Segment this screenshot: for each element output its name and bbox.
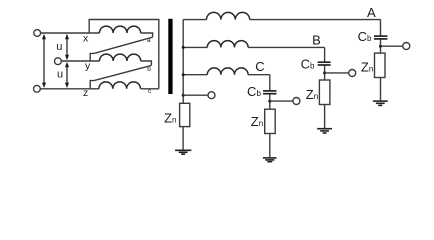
branch B wire (left of inductor)	[183, 46, 207, 48]
wire C drop to capacitor	[269, 75, 271, 91]
svg-text:y: y	[85, 60, 91, 72]
svg-text:u: u	[56, 41, 62, 53]
impedance box Zn (branch C)	[265, 109, 276, 133]
branch C wire (right of inductor)	[248, 74, 270, 76]
inductor branch C (3 humps)	[207, 68, 248, 75]
wire phase2 to node y	[62, 60, 100, 62]
wire box to ground (branch B)	[324, 105, 326, 129]
wire winding z-c to right edge	[141, 88, 159, 90]
wire capacitor to box (branch A)	[380, 39, 382, 53]
wire junction C to terminal	[270, 100, 293, 102]
delta frame: riser at node x, top edge, right edge	[89, 20, 159, 89]
wire capacitor to box (branch C)	[269, 94, 271, 109]
wire winding y-b to corner b	[141, 61, 152, 65]
terminal circle phase 3 (left bottom)	[34, 85, 41, 92]
branch B wire (right of inductor)	[248, 46, 325, 48]
wire junction B to terminal	[325, 72, 349, 74]
svg-text:x: x	[83, 33, 89, 45]
node junction C	[268, 100, 271, 103]
winding z-c (inductor, 3 humps)	[99, 82, 141, 89]
branch A wire (right of inductor)	[250, 19, 381, 21]
svg-text:A: A	[367, 5, 376, 20]
node junction bus-B	[182, 46, 185, 49]
capacitor Cb (branch B)	[318, 62, 331, 65]
svg-text:u: u	[57, 69, 63, 81]
svg-text:z: z	[83, 87, 88, 99]
branch C wire (left of inductor)	[183, 74, 207, 76]
impedance box Zn (neutral)	[180, 103, 190, 126]
capacitor Cb (branch A)	[374, 36, 387, 39]
impedance box Zn (branch B)	[319, 80, 330, 105]
branch A wire (left of inductor)	[183, 19, 206, 21]
node junction B	[323, 71, 326, 74]
wire box to ground (neutral)	[182, 127, 184, 150]
svg-text:B: B	[312, 33, 321, 48]
wire bus junction to terminal	[183, 94, 208, 96]
terminal circle branch C	[293, 98, 300, 105]
svg-text:Zn: Zn	[164, 111, 176, 126]
winding y-b (inductor, 3 humps)	[99, 54, 140, 61]
node junction bus-C	[182, 73, 185, 76]
terminal circle phase 2 (left middle)	[55, 58, 62, 65]
svg-text:Zn: Zn	[306, 87, 318, 102]
svg-text:Cb: Cb	[358, 29, 372, 44]
impedance box Zn (branch A)	[375, 53, 386, 77]
inductor branch B (3 humps)	[207, 41, 248, 48]
terminal circle branch A	[403, 43, 410, 50]
wire phase3 to node z	[41, 88, 99, 90]
wire B drop to capacitor	[324, 47, 326, 61]
terminal circle neutral	[208, 92, 215, 99]
capacitor Cb (branch C)	[263, 91, 276, 94]
wire A drop to capacitor	[380, 20, 382, 36]
svg-text:Zn: Zn	[251, 114, 263, 129]
winding x-a (inductor, 3 humps)	[99, 26, 140, 33]
zigzag link a to y	[90, 37, 152, 61]
dimension arrow (x to z, unlabeled)	[42, 34, 46, 88]
voltage arrow u (y to z)	[65, 62, 69, 88]
zigzag link b to z	[90, 65, 151, 88]
terminal circle branch B	[349, 70, 356, 77]
svg-text:C: C	[255, 59, 264, 74]
voltage arrow u (x to y)	[65, 34, 69, 60]
terminal circle phase 1 (left top)	[34, 30, 41, 37]
feeder bus vertical wire	[182, 20, 184, 104]
svg-text:b: b	[147, 66, 151, 73]
ground (branch C)	[263, 158, 277, 162]
svg-text:Zn: Zn	[361, 60, 373, 75]
busbar (thick vertical bar)	[168, 19, 172, 94]
node junction A	[379, 45, 382, 48]
wire capacitor to box (branch B)	[324, 66, 326, 81]
svg-text:Cb: Cb	[247, 84, 261, 99]
inductor branch A (3 humps)	[207, 12, 250, 19]
wire junction A to terminal	[381, 45, 403, 47]
ground (branch B)	[317, 129, 332, 133]
wire winding x-a to corner a	[141, 33, 153, 37]
wire box to ground (branch C)	[269, 134, 271, 158]
wire phase1 to node x	[41, 32, 100, 34]
ground (neutral)	[175, 150, 191, 154]
node junction bus-neutral	[182, 94, 185, 97]
ground (branch A)	[373, 101, 388, 105]
wire box to ground (branch A)	[380, 78, 382, 101]
svg-text:Cb: Cb	[301, 56, 315, 71]
